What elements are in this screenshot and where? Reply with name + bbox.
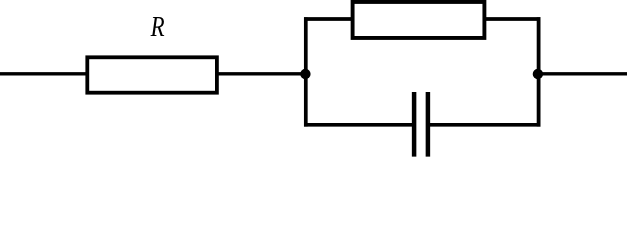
wire left vertical riser (304, 17, 308, 126)
resistor R2 (unlabeled top box) (353, 2, 485, 38)
wire left lead (0, 72, 87, 75)
resistor R (87, 57, 217, 92)
wire right lead (538, 72, 627, 75)
wire right vertical riser (537, 17, 541, 126)
wire bottom branch right segment (428, 123, 541, 127)
wire R to node A (217, 72, 306, 75)
svg-text:R: R (150, 11, 165, 43)
wire bottom branch left segment (304, 123, 414, 127)
wire top branch left segment (304, 17, 353, 21)
node B (533, 69, 543, 79)
wire top branch right segment (485, 17, 541, 21)
capacitor C1 (414, 92, 428, 157)
node A (300, 69, 310, 79)
